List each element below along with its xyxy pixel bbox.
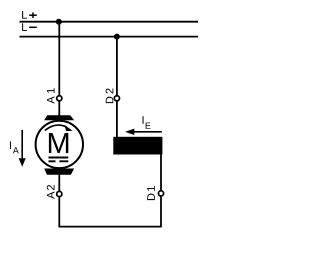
current arrow I_A: [19, 130, 26, 167]
motor M1 armature circle: [36, 121, 83, 168]
wire L- junction down to terminal D2: [116, 37, 118, 96]
label I_A: [10, 141, 19, 153]
wire A2 down, bottom return, up to D1: [59, 197, 161, 227]
field winding E1 (excitation winding): [113, 137, 162, 155]
wire terminal D2 to field winding: [116, 102, 118, 139]
terminal A2: [57, 191, 62, 196]
node junction on L+: [56, 19, 62, 25]
wire motor brush to terminal A2: [58, 173, 60, 191]
current arrow I_E: [125, 129, 162, 135]
wire L+ junction down to terminal A1: [58, 22, 60, 96]
wire L- supply line: [20, 36, 199, 38]
wire terminal A1 to motor brush: [58, 102, 60, 117]
net label L+: [22, 11, 37, 19]
label I_E: [143, 116, 151, 129]
motor M1 letter M: [49, 133, 68, 153]
net label L-: [22, 23, 37, 31]
wire L+ supply line: [20, 21, 199, 23]
motor M1 DC symbol dashed bar: [49, 160, 69, 162]
label D2: [106, 88, 114, 103]
motor M1 top brush: [44, 115, 74, 120]
motor M1 bottom brush: [44, 169, 74, 175]
motor M1 rotation arrow: [45, 125, 73, 131]
node junction on L-: [114, 34, 120, 40]
motor M1 DC symbol solid bar: [49, 157, 69, 159]
label A2: [47, 185, 55, 199]
terminal A1: [57, 96, 62, 101]
wire field winding to terminal D1: [160, 154, 162, 191]
terminal D1: [158, 191, 163, 196]
label A1: [47, 88, 55, 103]
terminal D2: [114, 96, 119, 101]
label D1: [147, 186, 155, 200]
